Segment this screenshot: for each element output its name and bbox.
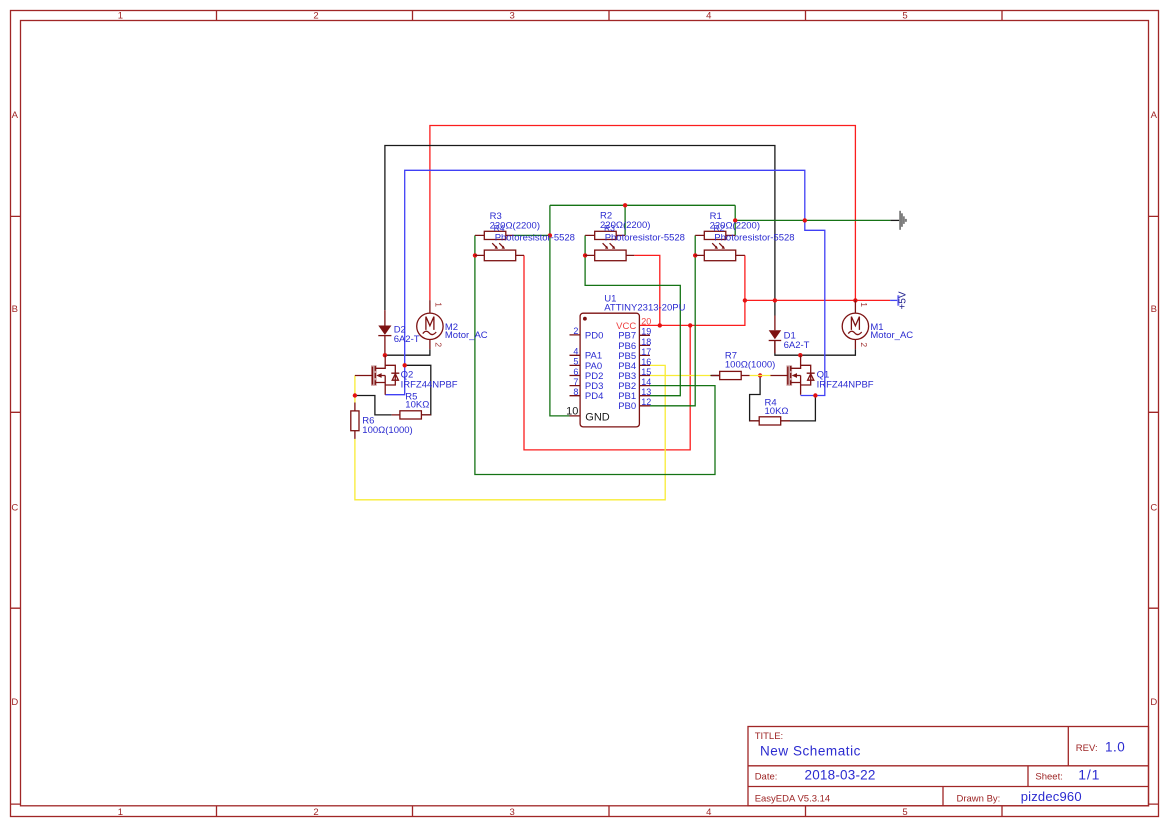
resistor R6 labels [362,415,412,435]
svg-text:A: A [1151,110,1158,121]
wire gate node to R5 left [355,396,392,415]
wire Q2 drain-R5 loop [405,365,431,415]
frame row ticks right [1149,216,1160,804]
wire green R2 right drop [624,205,626,235]
wire green R1 right drop [734,205,736,235]
svg-text:EasyEDA V5.3.14: EasyEDA V5.3.14 [755,793,831,804]
svg-text:2: 2 [313,11,318,22]
diode D2 labels [394,324,420,345]
svg-text:pizdec960: pizdec960 [1021,789,1082,804]
svg-text:ATTINY2313-20PU: ATTINY2313-20PU [604,303,685,314]
diode D1 labels [784,330,810,351]
wire M2 pin2 to drain node [385,349,430,355]
wire green GND to U1 pin10 [550,205,570,416]
svg-text:PB0: PB0 [618,401,636,412]
svg-text:Photoresistor-5528: Photoresistor-5528 [495,233,575,244]
svg-text:A: A [12,110,19,121]
svg-text:1: 1 [434,302,444,307]
U1 pin numbers right [641,317,651,408]
svg-text:Date:: Date: [755,772,778,783]
svg-text:GND: GND [585,412,610,424]
resistor R2 [585,231,625,239]
transistor Q1 labels [817,370,874,391]
U1 right pin stubs [639,335,650,406]
svg-text:1: 1 [118,11,123,22]
resistor R1 labels [710,211,760,233]
svg-text:6A2-T: 6A2-T [394,334,420,345]
motor M1 [842,300,869,349]
svg-text:1.0: 1.0 [1105,740,1125,755]
resistor R4 labels [765,398,789,417]
svg-text:Drawn By:: Drawn By: [957,793,1001,804]
ruler letters left [11,110,18,708]
transistor Q2 [355,355,399,394]
wire blue source bus [385,170,825,395]
wire yellow Q2 gate vertical [354,376,356,403]
wire U1 pin20 VCC [639,255,745,325]
svg-text:Photoresistor-5528: Photoresistor-5528 [605,233,685,244]
resistor R2 labels [600,211,650,234]
svg-text:10: 10 [566,406,578,418]
svg-text:Motor_AC: Motor_AC [445,330,488,341]
resistor R5 labels [405,391,429,410]
svg-text:220Ω(2200): 220Ω(2200) [490,221,540,232]
svg-text:15: 15 [641,367,651,377]
wire photoresistor R3 right VCC loop [524,255,690,450]
wire R4 right to source node [781,396,816,421]
motor M1 labels [870,322,913,341]
svg-text:D: D [11,697,18,708]
svg-text:2: 2 [433,342,443,347]
svg-text:5: 5 [902,807,907,818]
resistor R5 [392,411,431,419]
svg-text:4: 4 [706,11,711,22]
junction dots [353,203,858,398]
svg-text:IRFZ44NPBF: IRFZ44NPBF [401,379,458,390]
svg-text:+5V: +5V [897,291,908,309]
svg-text:220Ω(2200): 220Ω(2200) [600,220,650,231]
photoresistor at R3 [475,243,524,261]
+5V power flag [890,291,908,309]
svg-text:IRFZ44NPBF: IRFZ44NPBF [817,379,874,390]
motor M2 [417,300,444,349]
frame row ticks left [10,216,20,804]
U1 pin names left [585,330,603,402]
svg-text:1/1: 1/1 [1078,767,1100,783]
U1 left pin stubs [570,335,581,416]
svg-text:5: 5 [902,11,907,22]
IC U1 body [580,313,639,427]
ruler numbers top [118,11,908,22]
wire green U1 PB1 loop [585,235,680,395]
wire photoresistor R2 right to VCC [634,255,660,325]
svg-text:3: 3 [510,807,515,818]
svg-text:16: 16 [641,357,651,367]
svg-text:4: 4 [573,347,578,357]
svg-text:20: 20 [641,317,651,327]
svg-text:19: 19 [641,327,651,337]
wire yellow R6 to U1 PB4 [355,365,665,499]
wire VCC red bus M2 to rail [430,126,856,301]
photoresistor at R1 [695,243,745,261]
svg-text:18: 18 [641,337,651,347]
svg-text:6A2-T: 6A2-T [784,340,810,351]
svg-text:10KΩ: 10KΩ [405,399,429,410]
wire R4 gate loop [750,376,761,421]
resistor R7 [711,371,749,379]
frame column ticks bottom [217,806,1003,817]
U1 pin names right [616,321,636,412]
resistor R3 labels [490,211,540,233]
svg-text:B: B [12,304,18,315]
svg-text:B: B [1151,304,1157,315]
svg-text:220Ω(2200): 220Ω(2200) [710,221,760,232]
svg-text:17: 17 [641,347,651,357]
resistor R6 [351,403,359,439]
motor M2 labels [445,322,488,341]
svg-text:Sheet:: Sheet: [1035,772,1062,783]
wire black cathode bus D2 to D1 [385,146,775,316]
ground symbol [899,211,907,230]
svg-text:7: 7 [573,377,578,387]
svg-text:Photoresistor-5528: Photoresistor-5528 [714,233,794,244]
diode D1 [769,316,782,354]
photoresistor at R2 [585,243,634,261]
wire green GND bus [550,204,735,206]
U1 pin numbers left [566,326,578,417]
wire D1 to M1 pin2 [775,341,856,355]
transistor Q2 labels [401,370,458,391]
svg-text:REV:: REV: [1076,743,1098,754]
svg-text:13: 13 [641,387,651,397]
svg-text:2: 2 [859,342,869,347]
svg-text:C: C [1150,503,1157,514]
svg-text:2018-03-22: 2018-03-22 [805,768,876,783]
resistor R1 [695,231,735,239]
resistor R4 [750,417,790,425]
svg-text:5: 5 [573,357,578,367]
svg-text:PD4: PD4 [585,391,603,402]
svg-text:3: 3 [510,11,515,22]
svg-text:8: 8 [573,387,578,397]
diode D2 [378,310,391,353]
wire ground symbol stub [890,219,899,221]
ruler letters right [1150,110,1157,708]
svg-text:2: 2 [573,326,578,336]
svg-text:2: 2 [313,807,318,818]
resistor R7 labels [725,350,775,370]
svg-text:4: 4 [706,807,711,818]
svg-text:D: D [1150,697,1157,708]
svg-text:TITLE:: TITLE: [755,731,784,742]
wire green U1 PB2 loop [475,235,715,474]
svg-text:PD0: PD0 [585,330,603,341]
svg-text:New Schematic: New Schematic [760,744,861,759]
svg-text:1: 1 [859,302,869,307]
svg-text:6: 6 [573,367,578,377]
title block outline [748,727,1149,806]
wire green GND line to ground symbol [735,219,890,221]
svg-text:12: 12 [641,397,651,407]
wire R7 left black [711,375,720,377]
resistor R3 [475,231,514,239]
svg-text:Motor_AC: Motor_AC [870,330,913,341]
svg-text:C: C [11,503,18,514]
svg-text:100Ω(1000): 100Ω(1000) [362,425,412,436]
wire yellow R7 to Q1 gate [750,375,771,377]
frame column ticks top [217,10,1003,20]
wire VCC rail [745,299,890,301]
transistor Q1 [770,355,814,394]
svg-text:10KΩ: 10KΩ [765,406,789,417]
ruler numbers bottom [118,807,908,818]
svg-text:1: 1 [118,807,123,818]
wire green U1 PB0 loop [650,235,695,405]
wire green R3 right link [514,234,550,236]
svg-text:100Ω(1000): 100Ω(1000) [725,360,775,371]
title block texts [755,731,1126,805]
svg-text:14: 14 [641,377,651,387]
wire yellow U1 PB3 to R7 [650,375,711,377]
